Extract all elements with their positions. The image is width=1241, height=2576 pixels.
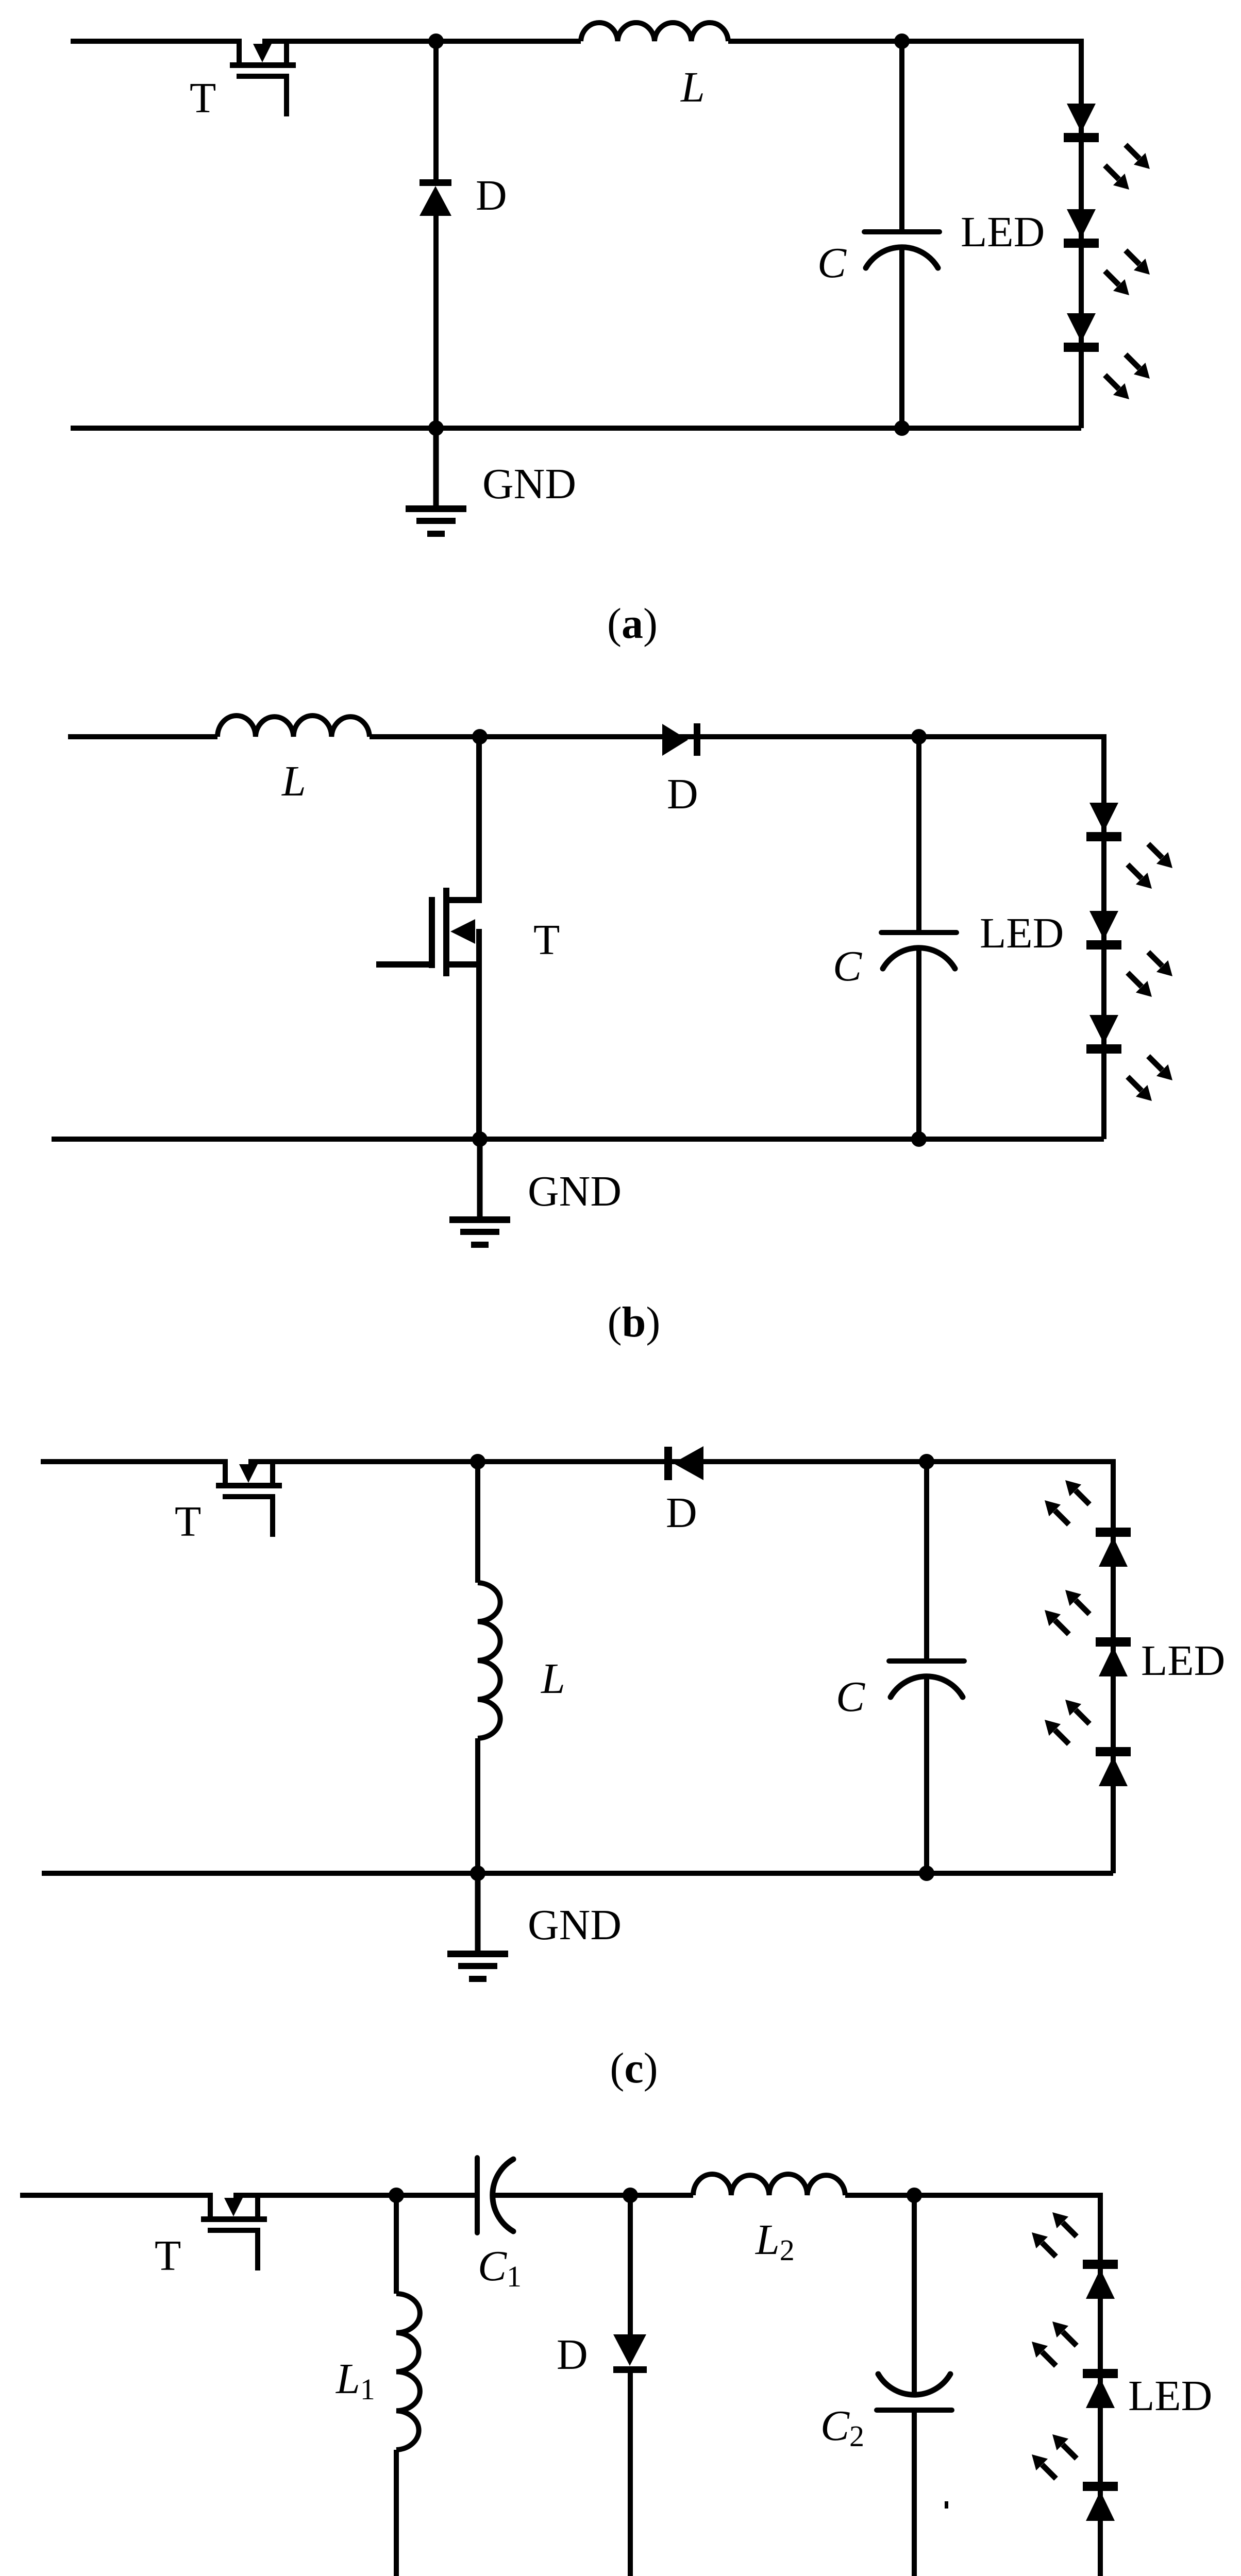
transistor T (b) vertical MOSFET — [443, 888, 449, 976]
wire: (c) top rail left segment — [41, 1459, 228, 1464]
LED 1 of chain (d) pointing up — [1083, 2260, 1118, 2299]
inductor L (c) vertical — [478, 1583, 500, 1738]
wire: (c) inductor branch upper segment — [475, 1462, 480, 1583]
wire: (a) capacitor branch upper segment — [899, 41, 904, 232]
diode D (d) pointing down — [613, 2334, 646, 2366]
wire: (d) C2 branch upper segment — [912, 2195, 917, 2394]
LED 1 of chain (b) — [1086, 803, 1121, 841]
node: (b) top rail / capacitor junction — [911, 729, 927, 744]
capacitor C2 (d) curved plate on top — [877, 2374, 952, 2410]
svg-text:C: C — [833, 942, 862, 990]
node: (b) top rail / transistor junction — [472, 729, 488, 744]
svg-text:LED: LED — [980, 909, 1064, 957]
wire: (d) LED branch vertical — [1098, 2193, 1103, 2576]
wire: (b) LED branch vertical — [1101, 734, 1106, 1139]
wire: (b) capacitor branch lower segment — [916, 948, 921, 1139]
wire: (c) capacitor branch lower segment — [924, 1677, 929, 1873]
capacitor C (c) — [889, 1661, 964, 1697]
node: (c) bottom rail / capacitor junction — [919, 1866, 934, 1881]
light arrows of LED 1 (b) — [1148, 844, 1172, 868]
wire: (b) capacitor branch upper segment — [916, 737, 921, 933]
wire: (c) top rail from transistor to LED branch — [248, 1459, 1113, 1464]
wire: (a) bottom rail — [71, 426, 1081, 431]
LED 2 of chain (d) pointing up — [1083, 2369, 1118, 2408]
LED 2 of chain (c) pointing up — [1096, 1637, 1131, 1676]
node: (a) top rail / capacitor junction — [894, 33, 910, 49]
wire: (a) top rail from transistor to inductor — [262, 39, 581, 44]
svg-text:C: C — [817, 239, 847, 287]
wire: (a) diode branch lower segment — [433, 215, 439, 428]
LED 3 of chain (a) — [1064, 313, 1099, 352]
node: (c) bottom rail / inductor junction — [470, 1866, 485, 1881]
wire: (b) bottom rail — [52, 1137, 1104, 1142]
node: (b) bottom rail / capacitor junction — [911, 1131, 927, 1147]
node: (c) top rail / inductor junction — [470, 1454, 485, 1469]
node: (d) top rail / diode junction — [623, 2188, 638, 2203]
wire: (a) top rail left segment — [71, 39, 242, 44]
svg-text:D: D — [667, 770, 698, 818]
LED 1 of chain (c) pointing up — [1096, 1528, 1131, 1567]
light arrows of LED 2 (a) — [1126, 250, 1150, 275]
LED 3 of chain (c) pointing up — [1096, 1747, 1131, 1786]
node: (a) top rail / diode junction — [428, 33, 444, 49]
light arrows of LED 3 (b) — [1148, 1056, 1172, 1080]
svg-text:L: L — [281, 757, 306, 805]
node: (b) bottom rail / transistor junction — [472, 1131, 488, 1147]
wire: (c) LED branch vertical — [1111, 1459, 1116, 1873]
diode D (a) pointing up — [420, 179, 451, 186]
capacitor C (b) — [881, 933, 957, 969]
light arrows of LED 1 (c) — [1065, 1480, 1089, 1504]
svg-text:(c): (c) — [610, 2044, 658, 2092]
svg-text:L: L — [541, 1655, 565, 1703]
light arrows of LED 2 (b) — [1148, 952, 1172, 976]
capacitor C (a) — [864, 232, 940, 268]
node: (a) bottom rail / diode junction — [428, 420, 444, 436]
svg-text:GND: GND — [528, 1167, 622, 1215]
wire: (a) diode branch upper segment — [433, 41, 439, 180]
wire: (d) L1 branch lower segment — [394, 2450, 399, 2576]
node: (c) top rail / capacitor junction — [919, 1454, 934, 1469]
svg-text:D: D — [666, 1489, 697, 1537]
svg-text:(a): (a) — [607, 600, 658, 648]
wire: (d) L1 branch upper segment — [394, 2195, 399, 2294]
light arrows of LED 2 (c) — [1065, 1590, 1089, 1614]
wire: (d) diode branch upper segment — [628, 2195, 633, 2335]
wire: (d) C2 branch lower segment — [912, 2410, 917, 2576]
wire: (b) transistor drain segment — [476, 737, 482, 903]
node: (d) top rail / C2 junction — [907, 2188, 922, 2203]
ground symbol (a) — [406, 428, 466, 537]
svg-text:LED: LED — [1128, 2372, 1212, 2420]
svg-text:D: D — [557, 2331, 588, 2379]
svg-text:T: T — [533, 916, 560, 964]
wire: (c) capacitor branch upper segment — [924, 1462, 929, 1661]
LED 2 of chain (b) — [1086, 911, 1121, 950]
LED 3 of chain (d) pointing up — [1083, 2482, 1118, 2521]
wire: (b) transistor source segment to bottom rail — [476, 929, 482, 1139]
wire: (a) LED branch vertical — [1079, 39, 1084, 428]
svg-text:GND: GND — [482, 460, 576, 508]
wire: (d) top rail from L2 to LED branch — [845, 2193, 1100, 2198]
wire: (d) top rail from transistor to capacitor C1 — [233, 2193, 477, 2198]
LED 2 of chain (a) — [1064, 209, 1099, 248]
ground symbol (c) — [447, 1873, 508, 1982]
wire: (b) top rail left segment — [68, 734, 217, 739]
wire: (d) diode branch lower segment — [628, 2372, 633, 2576]
ground symbol (b) — [449, 1139, 510, 1248]
inductor L2 (d) — [693, 2174, 845, 2195]
inductor L (a) — [581, 23, 728, 41]
diode D (b) pointing right on top rail — [662, 724, 688, 756]
wire: (d) top rail left segment — [20, 2193, 213, 2198]
capacitor C1 (d) horizontal — [477, 2158, 513, 2233]
svg-text:LED: LED — [961, 208, 1045, 256]
svg-text:T: T — [175, 1498, 201, 1546]
svg-text:D: D — [476, 172, 507, 219]
inductor L (b) — [217, 716, 370, 737]
light arrows of LED 3 (a) — [1126, 354, 1150, 379]
wire: (d) top rail from C1 to L2 — [493, 2193, 693, 2198]
svg-text:GND: GND — [528, 1901, 622, 1949]
light arrows of LED 3 (c) — [1065, 1700, 1089, 1724]
wire: (a) capacitor branch lower segment — [899, 248, 904, 428]
stray mark (d) — [945, 2501, 948, 2509]
svg-text:LED: LED — [1141, 1637, 1225, 1685]
transistor T (a) MOSFET on top rail — [230, 39, 296, 116]
LED 3 of chain (b) — [1086, 1015, 1121, 1054]
LED 1 of chain (a) — [1064, 104, 1099, 142]
node: (a) bottom rail / capacitor junction — [894, 420, 910, 436]
node: (d) top rail / L1 junction — [389, 2188, 404, 2203]
svg-text:T: T — [155, 2232, 181, 2280]
wire: (c) inductor branch lower segment — [475, 1738, 480, 1873]
light arrows of LED 1 (d) — [1052, 2212, 1077, 2236]
inductor L1 (d) vertical — [396, 2294, 420, 2450]
diode D (c) pointing left on top rail — [664, 1447, 672, 1480]
light arrows of LED 1 (a) — [1126, 145, 1150, 169]
svg-text:L: L — [680, 63, 705, 111]
svg-text:(b): (b) — [608, 1298, 661, 1346]
svg-text:T: T — [190, 74, 216, 122]
light arrows of LED 2 (d) — [1052, 2321, 1077, 2346]
wire: (c) bottom rail — [42, 1871, 1113, 1876]
transistor T (d) MOSFET on top rail — [201, 2193, 267, 2270]
svg-text:C: C — [836, 1673, 865, 1721]
wire: (a) top rail from inductor to LED branch — [728, 39, 1081, 44]
transistor T (c) MOSFET on top rail — [216, 1459, 282, 1537]
wire: (b) top rail from inductor to LED branch — [370, 734, 1104, 739]
light arrows of LED 3 (d) — [1052, 2434, 1077, 2459]
